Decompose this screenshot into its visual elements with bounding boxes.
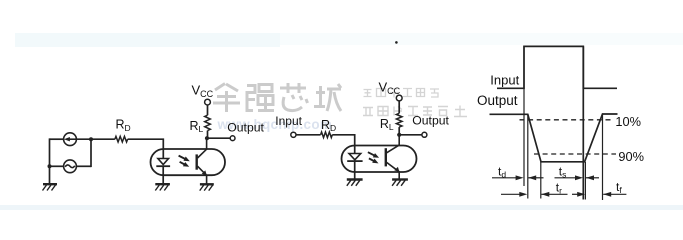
resistor RL2 bbox=[396, 113, 402, 127]
watermark small row 2 bbox=[363, 106, 467, 117]
wire RD2 to LED2 bbox=[332, 135, 354, 154]
terminal VCC2 bbox=[396, 95, 402, 101]
light arrows U1 bbox=[179, 156, 190, 167]
tick v1 input rise bbox=[523, 46, 525, 186]
wire left rail bbox=[49, 138, 51, 167]
resistor RL1 bbox=[205, 115, 211, 130]
optocoupler U1 package bbox=[151, 149, 226, 175]
dimension ts bbox=[555, 177, 600, 179]
wire RL2 to node bbox=[398, 127, 400, 135]
dashed 90% line bbox=[534, 153, 616, 155]
ac source V1 bbox=[64, 160, 77, 173]
svg-text:90%: 90% bbox=[618, 149, 644, 164]
dashed 10% line bbox=[520, 119, 615, 121]
terminal Output2 bbox=[422, 132, 427, 137]
svg-text:Input: Input bbox=[275, 114, 302, 128]
LED D1 bbox=[156, 159, 170, 185]
wire VCC1 to RL1 bbox=[207, 105, 209, 115]
wire top rail bbox=[50, 138, 64, 140]
wire node to output2 bbox=[399, 134, 422, 136]
light arrows U2 bbox=[368, 152, 379, 163]
node A junction bbox=[48, 164, 52, 168]
tick v4b rise start bbox=[584, 162, 586, 200]
svg-text:Output: Output bbox=[477, 93, 518, 108]
tick v2 fall start bbox=[527, 114, 529, 198]
svg-text:Output: Output bbox=[412, 114, 449, 128]
phototransistor Q2 bbox=[386, 135, 399, 180]
wire node to output bbox=[207, 137, 230, 139]
tick v5 rise 10% bbox=[602, 114, 604, 200]
tick v3 fall end bbox=[540, 162, 542, 199]
char qiang bbox=[247, 85, 274, 111]
node B junction bbox=[89, 137, 93, 141]
optocoupler U2 package bbox=[342, 146, 417, 173]
LED D2 bbox=[347, 154, 362, 180]
watermark small row 1 bbox=[364, 89, 440, 98]
ground G5 (emitter2) bbox=[392, 180, 408, 186]
wire RL1 to node bbox=[207, 131, 209, 139]
current source I1 bbox=[64, 133, 77, 146]
watermark big text (approximated CJK strokes) bbox=[213, 83, 341, 112]
wire right rail bbox=[90, 138, 92, 167]
dimension td bbox=[492, 177, 544, 179]
char cheng bbox=[314, 84, 341, 111]
wire input to RD2 bbox=[296, 134, 321, 136]
terminal Output1 bbox=[230, 136, 235, 141]
svg-text:10%: 10% bbox=[615, 114, 641, 129]
char xin bbox=[280, 83, 308, 111]
wire VCC2 to RL2 bbox=[398, 101, 400, 113]
ground G2 (LED cathode) bbox=[155, 184, 170, 190]
terminal Input2 bbox=[291, 132, 296, 137]
dimension tf bbox=[572, 193, 626, 195]
resistor RD2 bbox=[321, 132, 333, 138]
resistor RD1 bbox=[115, 136, 128, 142]
input waveform bbox=[497, 46, 617, 88]
ground G3 (emitter) bbox=[200, 184, 214, 190]
wire bottom rail bbox=[50, 165, 64, 167]
output waveform bbox=[490, 114, 618, 162]
phototransistor Q1 bbox=[197, 138, 207, 184]
wire RD1 to LED bbox=[128, 139, 164, 158]
node C junction bbox=[205, 136, 209, 140]
stray dot artifact bbox=[395, 41, 398, 44]
wire ground stub bbox=[49, 166, 51, 184]
char hua bbox=[213, 84, 240, 113]
node D junction bbox=[397, 133, 401, 137]
ground G1 bbox=[43, 184, 58, 190]
dimension tr bbox=[501, 193, 568, 195]
svg-text:Input: Input bbox=[490, 72, 519, 87]
tick v4 input fall bbox=[582, 46, 584, 199]
terminal VCC1 bbox=[205, 99, 211, 105]
ground G4 (LED2) bbox=[347, 180, 363, 186]
svg-text:Output: Output bbox=[227, 121, 264, 135]
